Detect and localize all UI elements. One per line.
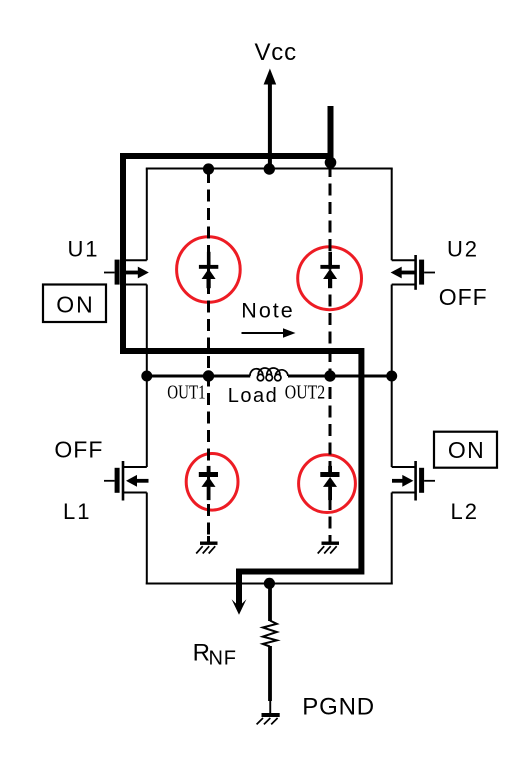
diode D4 symbol <box>320 466 339 500</box>
transistor L2 drain/source jogs <box>392 467 416 493</box>
svg-text:ON: ON <box>448 437 485 463</box>
svg-text:Note: Note <box>241 299 294 323</box>
svg-text:L1: L1 <box>63 499 91 524</box>
transistor U2 drain/source jogs <box>392 260 416 284</box>
diode D3 symbol <box>199 466 218 500</box>
node dot OUT line left edge <box>141 371 152 382</box>
wire left box edge lower segment <box>146 493 148 585</box>
wire dashed body-diode path left <box>207 171 210 542</box>
Note arrow <box>242 328 296 338</box>
diode D2 symbol <box>320 252 339 288</box>
svg-text:L2: L2 <box>451 499 479 524</box>
svg-text:Load: Load <box>228 385 278 407</box>
wire OUT1 segment of output line <box>146 374 250 377</box>
wire right box edge middle segment <box>391 285 393 468</box>
node dot OUT line right edge <box>386 371 397 382</box>
transistor U2 arrow <box>391 267 416 279</box>
current direction arrowhead at bottom <box>232 599 247 615</box>
transistor L1 drain/source jogs <box>123 467 147 493</box>
wire right box edge upper segment <box>391 169 393 261</box>
svg-text:ON: ON <box>56 292 95 318</box>
transistor L1 channel <box>122 461 125 501</box>
transistor L2 channel <box>414 461 417 501</box>
transistor U2 gate lead <box>424 272 435 274</box>
diode D1 circle (upper left body diode) <box>177 237 241 303</box>
wire right box edge lower segment <box>391 493 393 585</box>
transistor L2 arrow <box>392 475 413 487</box>
transistor L1 gate bar <box>115 468 120 493</box>
diode D1 symbol <box>199 252 218 288</box>
inductor Load <box>250 368 288 381</box>
Vcc arrow <box>264 69 277 170</box>
svg-text:R: R <box>193 640 210 667</box>
transistor U1 gate bar <box>115 260 120 285</box>
node dot at thick stub <box>325 157 337 169</box>
svg-text:U2: U2 <box>447 236 479 261</box>
wire dashed body-diode path right <box>329 165 332 542</box>
transistor L2 gate bar <box>419 468 424 493</box>
wire top box top line <box>146 168 393 170</box>
transistor L1 gate lead <box>104 480 115 482</box>
wire OUT2 segment of output line <box>288 374 393 377</box>
wire left box edge middle segment <box>146 285 148 468</box>
node dot Vcc junction <box>264 163 275 174</box>
node dot top line left (dashed path) <box>203 163 214 174</box>
svg-text:Vcc: Vcc <box>255 39 297 66</box>
diode D2 circle (upper right body diode) <box>298 247 362 310</box>
wire thick stub at top right <box>328 106 334 159</box>
transistor U2 channel <box>414 255 417 290</box>
svg-text:U1: U1 <box>68 236 100 261</box>
diode D3 circle (lower left body diode) <box>186 454 238 511</box>
resistor RNF <box>263 584 277 713</box>
node dot bottom junction <box>264 578 275 589</box>
ground symbol under D3 <box>196 536 217 554</box>
label ON box L2 <box>434 432 497 468</box>
svg-text:OFF: OFF <box>439 284 488 310</box>
wire thick current path (highlighted) <box>123 156 361 606</box>
transistor L1 arrow <box>126 475 149 487</box>
diode D4 circle (lower right body diode) <box>299 455 356 513</box>
transistor U1 arrow <box>126 267 149 279</box>
ground symbol under D4 <box>318 536 339 554</box>
label ON box U1 <box>43 285 106 323</box>
transistor U1 drain/source jogs <box>123 260 147 284</box>
transistor U1 gate lead <box>104 272 115 274</box>
node dot OUT1 <box>203 370 214 381</box>
svg-text:OFF: OFF <box>54 436 103 462</box>
svg-text:OUT2: OUT2 <box>285 381 325 403</box>
transistor L2 gate lead <box>424 480 435 482</box>
ground PGND symbol <box>257 713 280 724</box>
svg-text:OUT1: OUT1 <box>167 380 205 403</box>
transistor U2 gate bar <box>419 260 424 285</box>
wire left box edge upper segment <box>146 169 148 261</box>
svg-text:NF: NF <box>209 648 237 670</box>
node dot OUT2 <box>324 370 335 381</box>
wire bottom box line <box>146 583 393 585</box>
svg-text:PGND: PGND <box>302 694 375 721</box>
